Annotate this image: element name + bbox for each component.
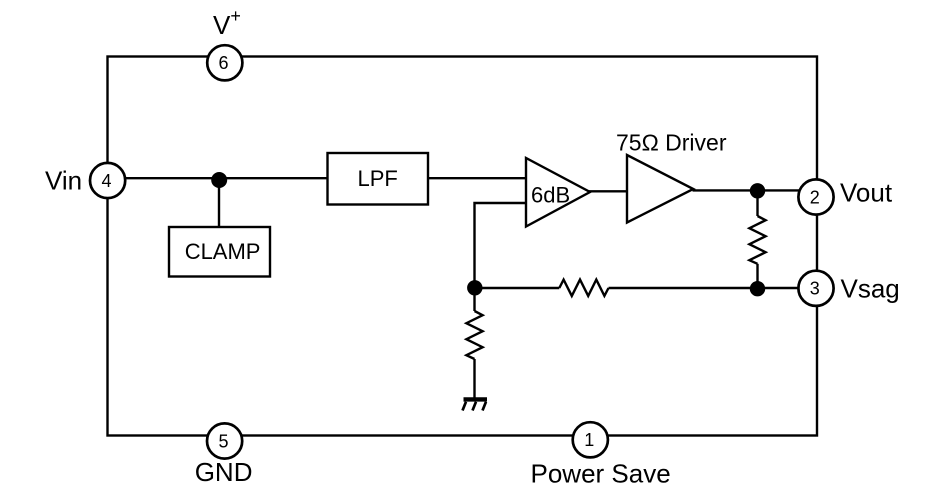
svg-text:Vin: Vin <box>45 166 82 196</box>
svg-text:2: 2 <box>810 187 820 207</box>
svg-text:75Ω Driver: 75Ω Driver <box>616 130 727 156</box>
svg-text:LPF: LPF <box>358 166 398 191</box>
svg-text:3: 3 <box>810 279 820 299</box>
svg-text:Vsag: Vsag <box>841 273 900 303</box>
svg-text:CLAMP: CLAMP <box>185 239 261 264</box>
svg-text:Vout: Vout <box>840 178 893 208</box>
svg-text:GND: GND <box>195 457 253 487</box>
svg-text:6dB: 6dB <box>531 183 570 208</box>
svg-text:1: 1 <box>584 430 594 450</box>
svg-text:5: 5 <box>218 431 228 451</box>
svg-text:6: 6 <box>218 53 228 73</box>
svg-text:Power Save: Power Save <box>531 459 671 489</box>
svg-text:4: 4 <box>101 171 111 191</box>
